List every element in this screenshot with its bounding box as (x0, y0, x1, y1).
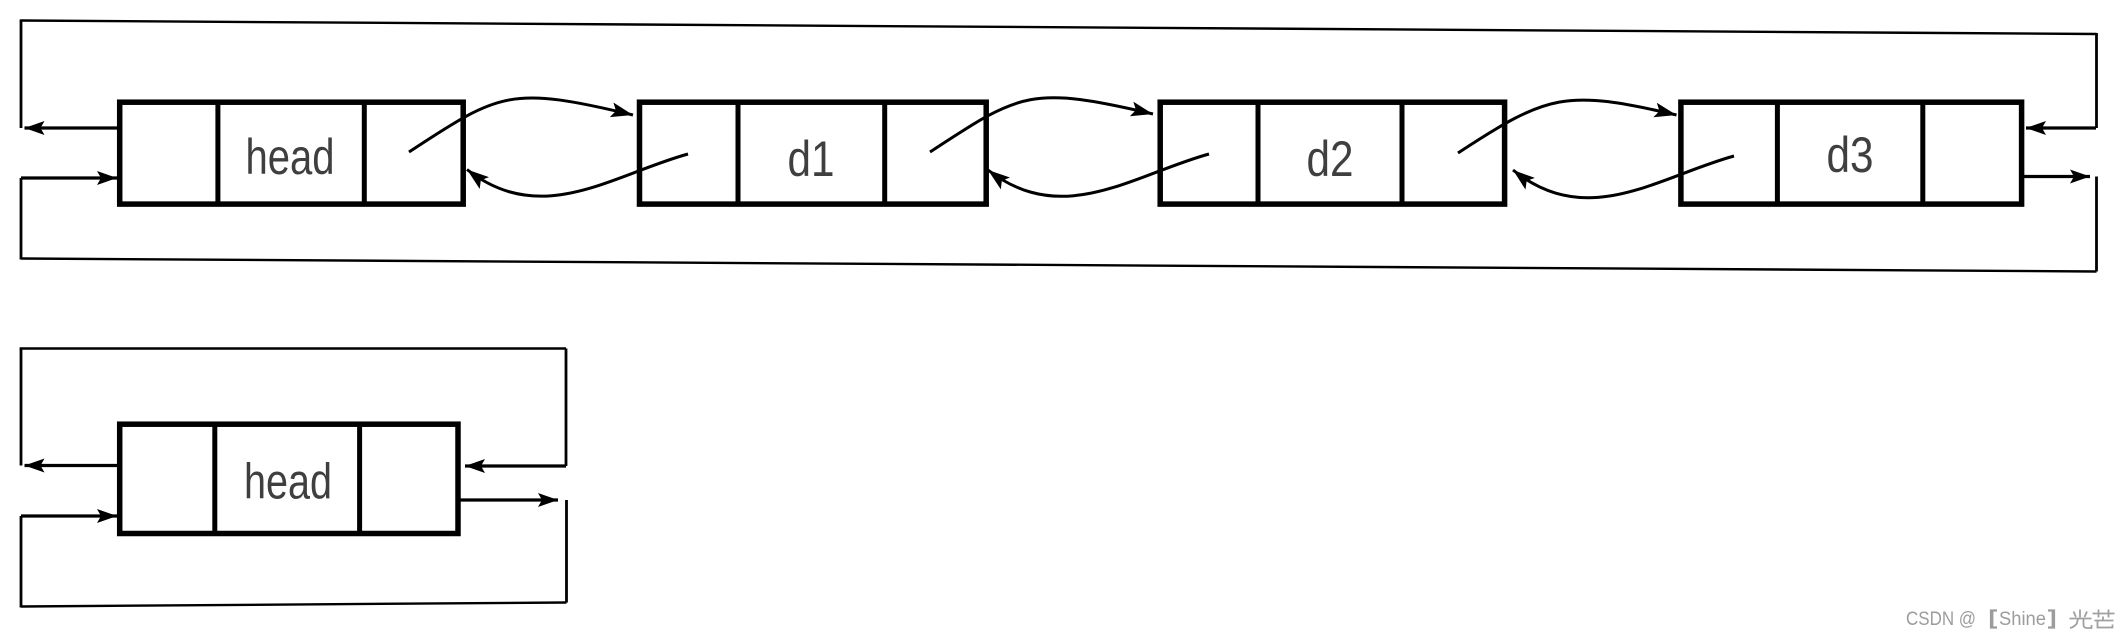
wire: d3.prev curved arrow to d2 (1513, 156, 1734, 198)
watermark CSDN (1906, 609, 2046, 630)
outer loop left vertical (upper) (20, 20, 23, 129)
outer loop left vertical (lower) (20, 178, 23, 260)
node d2 box (1160, 100, 1504, 206)
loop2 right vertical (lower) (565, 500, 568, 603)
node d3 box (1681, 100, 2022, 206)
node head2 box (120, 422, 458, 536)
svg-text:d1: d1 (788, 131, 835, 187)
svg-text:Shine: Shine (1999, 609, 2046, 630)
node head box (120, 100, 464, 206)
wire: arrow into head2 next cell pointing left (465, 464, 566, 467)
watermark glyph guang (2070, 610, 2092, 629)
wire: d3 next-out arrow pointing right (2023, 175, 2090, 178)
wire: arrow into head prev cell pointing right (21, 176, 117, 179)
wire: d2.next curved arrow to d3 (1458, 100, 1677, 153)
wire: d1.next curved arrow to d2 (930, 98, 1153, 152)
outer loop right vertical (upper) (2095, 33, 2098, 128)
loop2 left vertical (upper) (20, 349, 23, 466)
wire: head2 next-out arrow pointing right (459, 498, 558, 501)
watermark bracket right (2048, 611, 2054, 628)
loop2 left vertical (lower) (20, 516, 23, 608)
wire: arrow into head2 prev cell pointing right (21, 514, 117, 517)
wire: head.next curved arrow to d1 (409, 98, 633, 152)
watermark bracket left (1991, 611, 1997, 628)
wire: d1.prev curved arrow to head (467, 154, 688, 196)
wire: arrow into d3 next cell pointing left (2026, 126, 2096, 129)
outer loop right vertical (lower) (2095, 177, 2098, 272)
loop2 right vertical (upper) (565, 349, 568, 467)
loop2 top line (20, 347, 566, 349)
watermark glyph mang (2093, 610, 2115, 628)
svg-text:CSDN @: CSDN @ (1906, 609, 1976, 630)
svg-text:head: head (246, 129, 335, 185)
node d1 box (640, 100, 987, 206)
outer loop bottom line (21, 259, 2097, 272)
wire: d2.prev curved arrow to d1 (988, 154, 1209, 196)
wire: head prev-out arrow pointing left (25, 126, 119, 129)
svg-text:d2: d2 (1307, 131, 1354, 187)
loop2 bottom line (21, 603, 567, 607)
wire: head2 prev-out arrow pointing left (25, 464, 119, 467)
outer loop top line (21, 21, 2097, 35)
svg-text:head: head (244, 454, 332, 510)
svg-text:d3: d3 (1827, 127, 1874, 183)
